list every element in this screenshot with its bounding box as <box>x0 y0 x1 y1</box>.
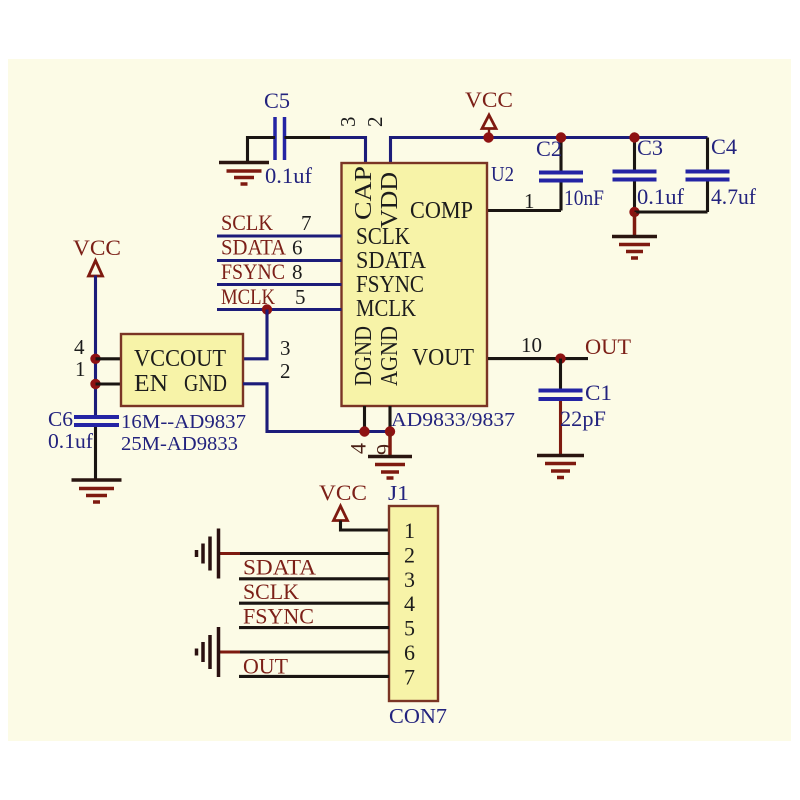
wire J1 pin 6 <box>240 650 389 653</box>
svg-text:6: 6 <box>404 640 415 665</box>
svg-text:5: 5 <box>295 285 306 309</box>
svg-text:9: 9 <box>372 444 397 455</box>
svg-text:FSYNC: FSYNC <box>243 603 314 628</box>
svg-text:C1: C1 <box>585 380 612 405</box>
svg-text:VCC: VCC <box>73 235 121 260</box>
junction oscillator pin 1 <box>90 379 100 389</box>
svg-text:SCLK: SCLK <box>356 224 411 250</box>
wire SDATA <box>217 259 342 262</box>
connector J1 body <box>389 506 438 701</box>
svg-text:0.1uf: 0.1uf <box>265 163 313 188</box>
svg-text:SDATA: SDATA <box>243 555 316 580</box>
svg-text:4: 4 <box>404 591 415 616</box>
wire VOUT pin 10 <box>488 357 588 360</box>
power VCC (J1) <box>319 480 367 521</box>
ground (C3/C4) <box>612 212 657 258</box>
svg-text:2: 2 <box>404 542 415 567</box>
wire oscillator pin 2 to IC ground rail <box>243 384 390 432</box>
junction oscillator pin 4 <box>90 354 100 364</box>
wire J1 pin 2 <box>240 552 389 555</box>
capacitor C2 <box>536 136 604 211</box>
svg-text:10: 10 <box>521 333 542 357</box>
wire AGND <box>388 406 391 432</box>
wire to oscillator pin 1 <box>96 382 122 385</box>
svg-text:VDD: VDD <box>377 172 403 228</box>
svg-text:J1: J1 <box>388 481 409 505</box>
svg-text:AGND: AGND <box>377 326 403 386</box>
svg-text:2: 2 <box>280 359 291 383</box>
svg-text:FSYNC: FSYNC <box>221 259 285 284</box>
svg-text:0.1uf: 0.1uf <box>48 429 93 453</box>
junction C2 top <box>556 132 566 142</box>
svg-text:MCLK: MCLK <box>356 296 417 322</box>
svg-text:U2: U2 <box>491 162 514 186</box>
junction VOUT <box>555 353 565 363</box>
svg-text:EN: EN <box>134 371 168 397</box>
oscillator module body <box>121 334 243 406</box>
svg-text:VCC: VCC <box>465 87 513 112</box>
wire DGND <box>363 406 366 432</box>
capacitor C3 <box>613 135 685 212</box>
svg-text:4: 4 <box>74 335 85 359</box>
svg-text:7: 7 <box>301 211 312 235</box>
ground (C1) <box>537 456 584 478</box>
svg-text:1: 1 <box>75 357 86 381</box>
svg-text:4: 4 <box>346 443 371 454</box>
wire VDD rail <box>391 138 708 164</box>
ground (C6) <box>72 480 122 502</box>
svg-text:1: 1 <box>404 518 415 543</box>
ground (IC AGND/DGND) <box>368 432 412 479</box>
svg-text:SCLK: SCLK <box>243 579 299 604</box>
svg-text:7: 7 <box>404 664 415 689</box>
wire J1 pin 3 SDATA <box>239 577 389 580</box>
wire VCC left vertical <box>94 276 97 417</box>
svg-text:3: 3 <box>404 567 415 592</box>
wire J1 pin 4 SCLK <box>239 602 389 605</box>
svg-text:6: 6 <box>292 236 303 260</box>
svg-text:4.7uf: 4.7uf <box>711 184 757 209</box>
svg-text:10nF: 10nF <box>564 185 604 210</box>
svg-text:AD9833/9837: AD9833/9837 <box>391 409 515 431</box>
wire FSYNC <box>217 283 342 286</box>
wire J1 pin 5 FSYNC <box>239 626 389 629</box>
svg-text:3: 3 <box>336 117 360 128</box>
svg-text:COMP: COMP <box>410 198 473 224</box>
power VCC (left) <box>73 235 121 276</box>
svg-text:SDATA: SDATA <box>221 235 286 260</box>
wire C5 left to ground <box>248 138 276 163</box>
wire CAP: C5 to IC pin 3 <box>285 136 331 139</box>
capacitor C6 <box>48 407 119 480</box>
svg-text:16M--AD9837: 16M--AD9837 <box>121 411 246 433</box>
svg-text:GND: GND <box>184 371 227 397</box>
svg-text:SCLK: SCLK <box>221 210 273 235</box>
svg-text:2: 2 <box>363 117 387 128</box>
junction MCLK <box>262 304 272 314</box>
svg-text:CON7: CON7 <box>389 704 447 728</box>
svg-text:5: 5 <box>404 616 415 641</box>
earth ground (J1 pin 6, rotated) <box>197 627 219 677</box>
svg-text:DGND: DGND <box>351 326 377 386</box>
op-amp U2 body (AD9833/9837 IC) <box>342 163 488 406</box>
ground (C5) <box>219 163 269 185</box>
wire J1 pin 7 OUT <box>239 675 389 678</box>
svg-text:SDATA: SDATA <box>356 248 427 274</box>
junction AGND <box>385 426 395 436</box>
svg-text:3: 3 <box>280 336 291 360</box>
wire MCLK <box>217 308 342 311</box>
svg-text:VCCOUT: VCCOUT <box>134 346 226 372</box>
wire SCLK <box>217 234 342 237</box>
svg-text:VCC: VCC <box>319 480 367 505</box>
svg-text:C4: C4 <box>711 134 737 159</box>
svg-text:22pF: 22pF <box>560 406 606 431</box>
svg-text:C5: C5 <box>264 88 290 113</box>
capacitor C1 <box>539 359 613 455</box>
capacitor C4 <box>686 134 757 212</box>
junction VCC top <box>483 132 493 142</box>
svg-text:VOUT: VOUT <box>412 345 474 371</box>
svg-text:C3: C3 <box>637 135 663 160</box>
junction DGND <box>359 426 369 436</box>
wire to oscillator pin 4 <box>96 357 122 360</box>
svg-text:OUT: OUT <box>585 334 632 359</box>
junction C3 bottom <box>629 207 639 217</box>
earth ground (J1 pin 2, rotated) <box>197 529 219 579</box>
svg-text:8: 8 <box>292 260 303 284</box>
wire J1 pin1 to VCC <box>341 521 390 531</box>
svg-text:25M-AD9833: 25M-AD9833 <box>121 433 238 455</box>
svg-text:CAP: CAP <box>351 166 377 220</box>
wire COMP pin 1 <box>488 209 561 212</box>
svg-text:OUT: OUT <box>243 654 289 679</box>
capacitor C5 <box>264 88 313 188</box>
svg-text:1: 1 <box>524 189 535 213</box>
junction C3 top <box>629 132 639 142</box>
power VCC (top) <box>465 87 513 138</box>
svg-text:0.1uf: 0.1uf <box>637 184 685 209</box>
svg-text:FSYNC: FSYNC <box>356 272 424 298</box>
wire C3-C4 bottom <box>635 210 708 213</box>
svg-text:C6: C6 <box>48 407 73 431</box>
wire MCLK to oscillator pin 3 <box>243 310 267 359</box>
